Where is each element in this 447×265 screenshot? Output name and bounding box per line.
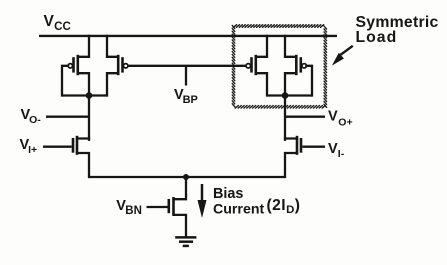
svg-text:BP: BP <box>183 94 198 106</box>
nmos Q2 input VI- <box>285 136 301 177</box>
svg-text:CC: CC <box>54 20 71 33</box>
wire left load drain bus <box>62 94 107 96</box>
wire VCC power rail <box>39 35 337 37</box>
wire VO- column <box>88 96 90 140</box>
wire VI- gate lead <box>302 146 325 148</box>
wire VI+ gate lead <box>43 146 72 148</box>
wire M4 gate-to-drain diode connection <box>306 66 312 96</box>
svg-text:O+: O+ <box>338 116 352 128</box>
nmos Q3 bias VBN <box>169 177 186 237</box>
svg-text:V: V <box>328 141 338 157</box>
node tail junction <box>183 174 189 180</box>
wire tail bus <box>89 176 285 178</box>
wire VBN gate lead <box>147 206 168 208</box>
wire VO+ column <box>284 96 286 140</box>
wire VO+ stub <box>285 116 325 118</box>
symmetric load boundary box (hatched) <box>232 25 326 108</box>
pmos M3 (right load, VBP biased) <box>246 36 267 96</box>
svg-text:Load: Load <box>356 29 398 46</box>
node left output junction <box>86 92 93 99</box>
svg-text:I-: I- <box>338 148 345 160</box>
svg-text:V: V <box>328 109 338 125</box>
arrow pointing to symmetric load <box>332 46 353 66</box>
wire right load drain bus <box>267 94 312 96</box>
svg-text:(2ID): (2ID) <box>267 197 301 216</box>
wire VBP stub <box>185 66 187 86</box>
svg-text:O-: O- <box>29 114 41 126</box>
wire VO- stub <box>46 116 89 118</box>
svg-text:Current: Current <box>213 201 265 217</box>
nmos Q1 input VI+ <box>73 136 89 177</box>
pmos M4 (right load, diode-connected) <box>285 36 306 96</box>
svg-text:Bias: Bias <box>213 186 243 202</box>
pmos M2 (left load, VBP biased) <box>107 36 128 96</box>
svg-text:BN: BN <box>125 205 142 217</box>
svg-text:V: V <box>44 13 55 30</box>
pmos M1 (left load, diode-connected) <box>68 36 89 96</box>
ground symbol <box>175 237 196 246</box>
arrow bias current <box>198 184 207 218</box>
svg-text:I+: I+ <box>28 144 37 156</box>
wire M1 gate-to-drain diode connection <box>62 66 68 96</box>
node right output junction <box>282 92 289 99</box>
wire VBP gate line <box>128 65 246 67</box>
